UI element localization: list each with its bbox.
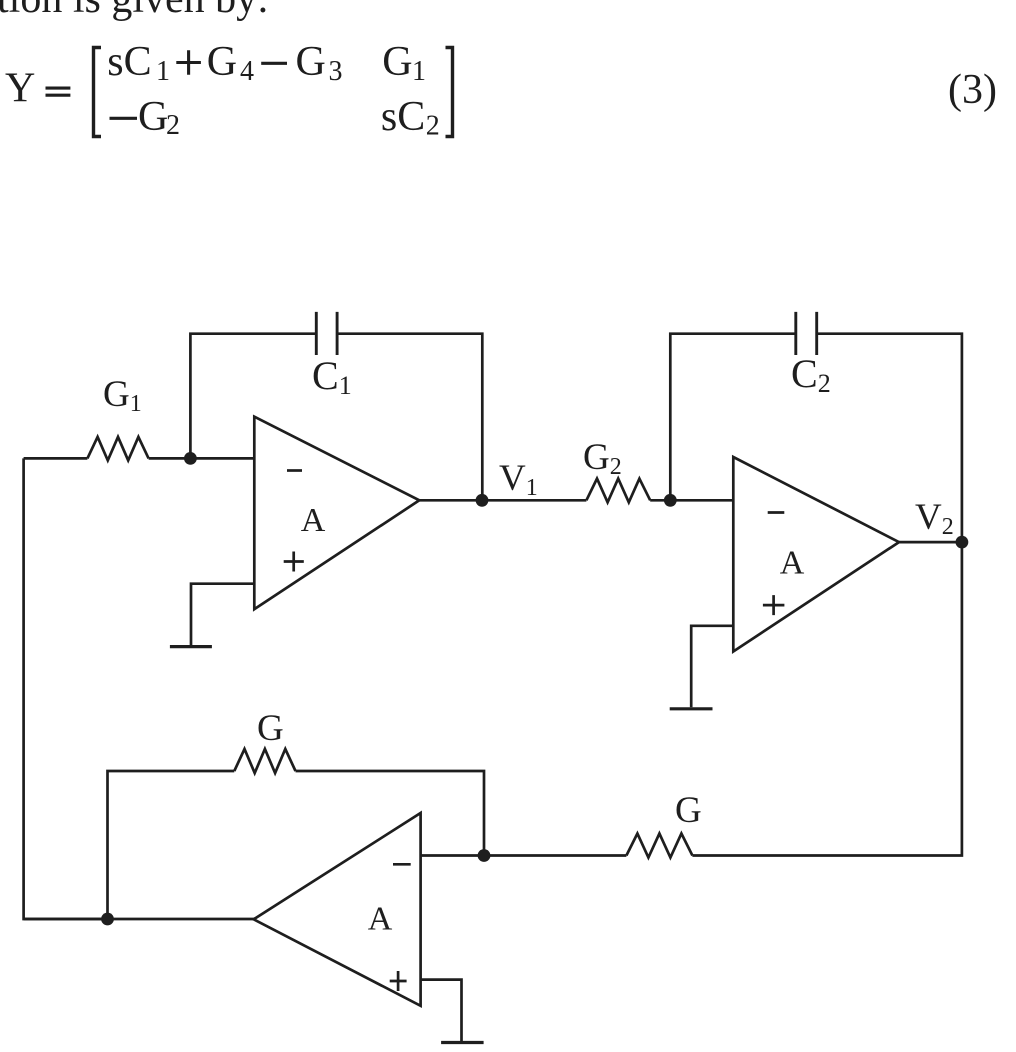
svg-text:G: G: [138, 94, 168, 140]
svg-text:V1: V1: [499, 458, 538, 501]
U2 minus sign: [768, 511, 785, 514]
wire input to G1: [24, 457, 88, 460]
svg-text:1: 1: [412, 56, 426, 87]
svg-text:2: 2: [426, 111, 440, 142]
wire U3 feedback left: [108, 771, 235, 919]
svg-text:G1: G1: [103, 374, 142, 417]
svg-text:C1: C1: [312, 353, 352, 400]
node V1: [476, 494, 489, 507]
U1 minus sign: [287, 469, 302, 472]
wire C1 feedback left: [190, 334, 316, 459]
U1 plus sign: [284, 552, 304, 572]
U2 plus sign: [763, 595, 785, 615]
svg-text:C2: C2: [791, 351, 831, 398]
wire G to inverting input of U3: [421, 854, 627, 857]
svg-text:Y: Y: [5, 66, 35, 112]
node n4 output node U3: [101, 913, 114, 926]
wire U1 noninverting input to ground: [191, 584, 254, 646]
svg-text:A: A: [780, 545, 805, 582]
svg-text:(3): (3): [948, 67, 997, 113]
svg-text:G: G: [382, 39, 412, 85]
svg-text:G: G: [675, 790, 702, 831]
svg-text:A: A: [301, 502, 326, 539]
matrix minus sign row2: [110, 117, 138, 120]
resistor G2: [586, 479, 650, 503]
svg-text:V2: V2: [915, 497, 954, 540]
wire U3 noninverting input to ground: [421, 980, 462, 1041]
ground U1: [170, 645, 212, 648]
capacitor C1: [316, 312, 337, 355]
svg-text:sC: sC: [381, 94, 425, 140]
svg-text:G: G: [257, 708, 284, 749]
wire G1 to inverting input of U1: [149, 457, 255, 460]
wire C2 feedback right: [817, 334, 962, 542]
wire U3 output: [24, 918, 254, 921]
wire U2 noninverting input to ground: [691, 626, 733, 708]
svg-text:tion is given by:: tion is given by:: [0, 0, 269, 22]
wire U3 feedback right: [296, 771, 485, 856]
U3 minus sign: [393, 863, 411, 866]
ground U2: [670, 707, 713, 710]
op-amp U1: [254, 417, 419, 610]
matrix right bracket: [446, 48, 453, 137]
ground U3: [441, 1041, 484, 1044]
svg-text:1: 1: [156, 56, 170, 87]
wire left feedback column: [24, 458, 108, 919]
resistor G feedback: [234, 749, 295, 773]
resistor G1: [87, 437, 148, 461]
node V2: [956, 536, 969, 549]
equation equals sign: [46, 88, 71, 95]
wire V2 down to right resistor G: [692, 542, 962, 855]
node n1 inverting input U1: [184, 452, 197, 465]
svg-text:2: 2: [166, 110, 180, 141]
matrix left bracket: [94, 48, 102, 137]
svg-text:3: 3: [329, 56, 343, 87]
svg-text:4: 4: [240, 56, 254, 87]
matrix minus sign row1: [261, 62, 287, 65]
wire G2 to inverting input of U2: [650, 499, 733, 502]
op-amp U3: [254, 813, 421, 1006]
wire U1 output to G2: [419, 499, 586, 502]
svg-text:A: A: [368, 901, 393, 938]
svg-text:sC: sC: [107, 39, 151, 85]
resistor G right: [626, 834, 692, 858]
wire C1 feedback right: [337, 334, 482, 501]
svg-text:G: G: [296, 39, 326, 85]
wire U2 output to V2: [899, 541, 962, 544]
svg-text:G2: G2: [583, 437, 622, 480]
wire C2 feedback left: [670, 334, 796, 501]
U3 plus sign: [390, 971, 407, 991]
op-amp U2: [733, 457, 899, 652]
capacitor C2: [796, 312, 817, 355]
node n3 inverting input U3: [478, 849, 491, 862]
svg-text:G: G: [207, 39, 237, 85]
matrix plus sign: [176, 50, 201, 74]
node n2 inverting input U2: [664, 494, 677, 507]
